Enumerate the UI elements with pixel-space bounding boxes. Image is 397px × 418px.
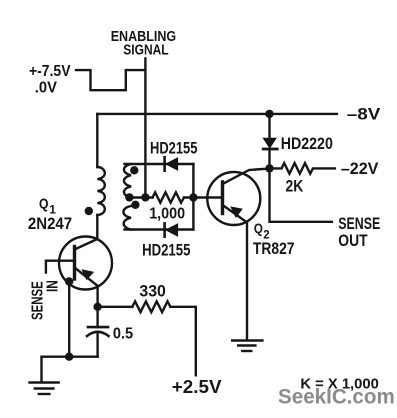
node -8V rail diode tap bbox=[265, 110, 273, 118]
capacitor C1 0.5 bbox=[87, 307, 109, 357]
svg-text:–22V: –22V bbox=[341, 159, 379, 178]
svg-text:2K: 2K bbox=[286, 177, 304, 196]
transistor Q1 base bar bbox=[73, 247, 76, 280]
transistor Q1 collector lead bbox=[75, 239, 98, 250]
label ENABLING SIGNAL bbox=[111, 29, 177, 58]
diode CR3 HD2220 (pointing down) bbox=[263, 138, 277, 149]
diode CR1 HD2155 top (pointing left) bbox=[165, 157, 178, 170]
svg-text:TR827: TR827 bbox=[253, 240, 295, 258]
transistor Q2 base bar bbox=[221, 182, 224, 214]
wire 330 to +2.5V corner bbox=[170, 307, 195, 376]
wire emitter junction to 330 bbox=[98, 306, 133, 308]
svg-text:2N247: 2N247 bbox=[28, 215, 72, 233]
label Q2 bbox=[254, 221, 270, 242]
wire sense out bbox=[270, 169, 332, 222]
wire enabling signal vertical bbox=[144, 59, 146, 198]
wire Q2 emitter down to ground bbox=[246, 222, 248, 340]
transistor Q2 circle bbox=[207, 172, 260, 225]
resistor R3 2K bbox=[270, 163, 335, 174]
wire secondary loop bottom bbox=[125, 228, 194, 230]
transistor Q1 emitter lead with PNP arrow bbox=[75, 268, 98, 287]
node center tap junction bbox=[125, 193, 133, 201]
transistor Q2 collector lead bbox=[223, 169, 270, 185]
node diode loop / base junction bbox=[189, 193, 197, 201]
transformer T1 secondary upper winding bbox=[124, 164, 131, 198]
svg-text:SENSE: SENSE bbox=[338, 214, 380, 233]
node enabling line junction bbox=[141, 193, 149, 201]
transformer T1 secondary lower polarity dot bbox=[131, 201, 139, 209]
svg-text:–8V: –8V bbox=[347, 105, 381, 124]
transformer T1 secondary lower winding bbox=[123, 206, 131, 230]
transistor Q1 circle bbox=[59, 237, 112, 290]
wire resistor to Q2 base bbox=[184, 196, 223, 198]
node emitter/330/cap junction bbox=[93, 303, 101, 311]
svg-text:0.5: 0.5 bbox=[113, 325, 134, 342]
label Q1 bbox=[39, 197, 56, 217]
svg-text:K = X 1,000: K = X 1,000 bbox=[300, 377, 378, 393]
label SENSE OUT bbox=[338, 214, 380, 250]
wire center tap to resistor bbox=[130, 196, 153, 198]
node collector/2K junction bbox=[265, 164, 273, 172]
svg-text:1,000: 1,000 bbox=[149, 205, 185, 222]
svg-text:OUT: OUT bbox=[338, 231, 368, 250]
wire from circle edge down to ground wire bbox=[68, 282, 70, 357]
svg-text:IN: IN bbox=[45, 280, 62, 292]
transistor Q2 emitter lead with PNP arrow bbox=[223, 205, 247, 222]
transistor Q1 base lead and SENSE IN stub bbox=[46, 261, 75, 273]
svg-text:330: 330 bbox=[139, 283, 165, 301]
wire -8V rail bbox=[97, 113, 337, 115]
svg-text:Q: Q bbox=[254, 221, 263, 236]
transformer T1 secondary upper polarity dot bbox=[130, 166, 138, 174]
transformer T1 primary winding bbox=[97, 167, 105, 215]
wire rail to diode bbox=[268, 114, 270, 139]
wire ground bus bottom-left bbox=[42, 357, 98, 383]
svg-text:HD2155: HD2155 bbox=[150, 140, 197, 158]
wire Q1 emitter down bbox=[96, 287, 98, 307]
ground symbol G1 bbox=[30, 383, 59, 395]
wire left vertical to transformer primary bbox=[96, 114, 98, 167]
resistor R1 1,000 bbox=[153, 192, 184, 202]
ground symbol G2 bbox=[232, 341, 262, 352]
svg-text:+-7.5V: +-7.5V bbox=[29, 63, 71, 80]
svg-text:HD2155: HD2155 bbox=[142, 242, 190, 260]
svg-text:.0V: .0V bbox=[35, 79, 58, 96]
svg-text:HD2220: HD2220 bbox=[281, 135, 333, 153]
wire secondary loop right side bbox=[192, 164, 194, 230]
wire primary to Q1 collector bbox=[96, 215, 98, 239]
node ground bus junction bbox=[65, 353, 73, 361]
transformer T1 primary polarity dot bbox=[85, 207, 93, 215]
node Q1 circle-edge junction bbox=[65, 277, 73, 285]
wire secondary loop top bbox=[125, 163, 194, 165]
svg-text:Q: Q bbox=[39, 197, 49, 213]
svg-text:SIGNAL: SIGNAL bbox=[123, 42, 168, 58]
diode CR2 HD2155 bottom (pointing left) bbox=[165, 223, 178, 236]
resistor R2 330 bbox=[132, 301, 170, 312]
wire diode to collector junction bbox=[268, 149, 270, 169]
waveform pulse bbox=[76, 70, 145, 90]
svg-text:+2.5V: +2.5V bbox=[172, 377, 222, 397]
